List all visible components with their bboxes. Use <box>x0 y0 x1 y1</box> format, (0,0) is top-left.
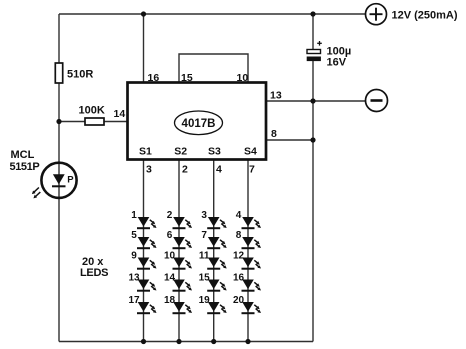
LED 18 <box>164 295 192 313</box>
svg-text:14: 14 <box>114 108 126 120</box>
junction: S3 / 0V rail <box>211 339 216 344</box>
wire: left rail (above 510R) <box>58 14 60 63</box>
svg-text:S1: S1 <box>139 146 152 158</box>
LED 11 <box>199 251 227 269</box>
LED 9 <box>131 251 156 269</box>
resistor 100K <box>79 105 105 126</box>
svg-text:15: 15 <box>181 72 193 84</box>
junction: top rail / pin 16 <box>141 11 146 16</box>
svg-text:4: 4 <box>236 210 242 221</box>
label MCL 5151P <box>10 149 40 173</box>
LED 15 <box>199 273 227 291</box>
wire: LED column S1 <box>143 160 145 342</box>
+12V supply terminal <box>366 4 458 25</box>
svg-text:18: 18 <box>164 295 176 306</box>
wire: node to 100K <box>59 121 85 123</box>
svg-text:19: 19 <box>199 295 211 306</box>
svg-text:5: 5 <box>131 230 137 241</box>
capacitor C1 100u 16V (electrolytic) <box>307 41 352 69</box>
svg-text:17: 17 <box>128 295 140 306</box>
svg-text:11: 11 <box>199 251 210 262</box>
svg-text:8: 8 <box>271 128 277 140</box>
svg-text:13: 13 <box>128 273 140 284</box>
svg-text:2: 2 <box>167 210 173 221</box>
svg-text:14: 14 <box>164 273 176 284</box>
resistor 510R <box>55 63 93 83</box>
svg-text:100K: 100K <box>79 105 105 117</box>
svg-text:4: 4 <box>216 164 222 176</box>
svg-text:P: P <box>67 174 74 185</box>
wire: LED column S4 <box>247 160 249 342</box>
svg-text:6: 6 <box>167 230 173 241</box>
svg-text:3: 3 <box>146 164 152 176</box>
svg-text:7: 7 <box>249 164 255 176</box>
svg-text:510R: 510R <box>67 69 93 81</box>
LED P (MCL 5151P pilot lamp) <box>32 163 77 199</box>
LED 13 <box>128 273 156 291</box>
svg-text:5151P: 5151P <box>10 161 40 173</box>
LED 14 <box>164 273 192 291</box>
wire: pin 16 to top rail <box>143 14 145 83</box>
LED 8 <box>236 230 261 248</box>
svg-text:4017B: 4017B <box>182 118 216 130</box>
wire: LED column S3 <box>213 160 215 342</box>
junction: pin 8 / right rail <box>310 137 315 142</box>
svg-text:15: 15 <box>199 273 211 284</box>
junction: S4 / 0V rail <box>245 339 250 344</box>
junction: top rail / capacitor <box>310 11 315 16</box>
svg-text:S2: S2 <box>174 146 187 158</box>
svg-text:MCL: MCL <box>11 149 35 161</box>
wire: pin 8 to 0V rail <box>266 139 313 141</box>
LED 10 <box>164 251 192 269</box>
svg-text:9: 9 <box>131 251 137 262</box>
wire: 100K to pin 14 <box>104 121 128 123</box>
label 20 x LEDS <box>80 256 108 279</box>
svg-text:7: 7 <box>201 230 207 241</box>
svg-text:20: 20 <box>233 295 245 306</box>
junction: S2 / 0V rail <box>176 339 181 344</box>
svg-text:3: 3 <box>201 210 207 221</box>
svg-text:12: 12 <box>233 251 245 262</box>
svg-text:LEDS: LEDS <box>80 267 108 279</box>
svg-text:16: 16 <box>148 72 160 84</box>
svg-text:2: 2 <box>182 164 188 176</box>
wire: LED column S2 <box>178 160 180 342</box>
wire: right 0V rail (capacitor to bottom) <box>312 61 314 342</box>
wire: bottom 0V rail <box>59 341 313 343</box>
LED 16 <box>233 273 261 291</box>
LED 7 <box>201 230 226 248</box>
wire: capacitor top lead <box>312 14 314 50</box>
wire: pin 15 to pin 10 strap <box>179 54 248 83</box>
junction: S1 / 0V rail <box>141 339 146 344</box>
svg-text:1: 1 <box>131 210 137 221</box>
LED 6 <box>167 230 192 248</box>
svg-text:16V: 16V <box>327 57 347 69</box>
LED 17 <box>128 295 156 313</box>
LED 1 <box>131 210 156 228</box>
LED 12 <box>233 251 261 269</box>
LED 5 <box>131 230 156 248</box>
wire: +12V top rail <box>59 13 366 15</box>
wire: left rail (510R to bottom) <box>58 83 60 342</box>
LED 20 <box>233 295 261 313</box>
svg-text:8: 8 <box>236 230 242 241</box>
svg-text:10: 10 <box>237 72 249 84</box>
LED 3 <box>201 210 226 228</box>
svg-text:13: 13 <box>270 89 282 101</box>
svg-text:S4: S4 <box>244 146 257 158</box>
svg-text:10: 10 <box>164 251 176 262</box>
IC U1 4017B body <box>128 83 267 160</box>
svg-text:16: 16 <box>233 273 245 284</box>
LED 2 <box>167 210 192 228</box>
wire: pin 13 to negative terminal <box>266 100 366 102</box>
junction: pin 13 / right rail <box>310 98 315 103</box>
svg-text:S3: S3 <box>208 146 221 158</box>
0V (negative) supply terminal <box>366 90 388 112</box>
LED 19 <box>199 295 227 313</box>
LED 4 <box>236 210 261 228</box>
svg-text:12V (250mA): 12V (250mA) <box>392 10 458 22</box>
junction: 510R / 100K node <box>56 119 61 124</box>
